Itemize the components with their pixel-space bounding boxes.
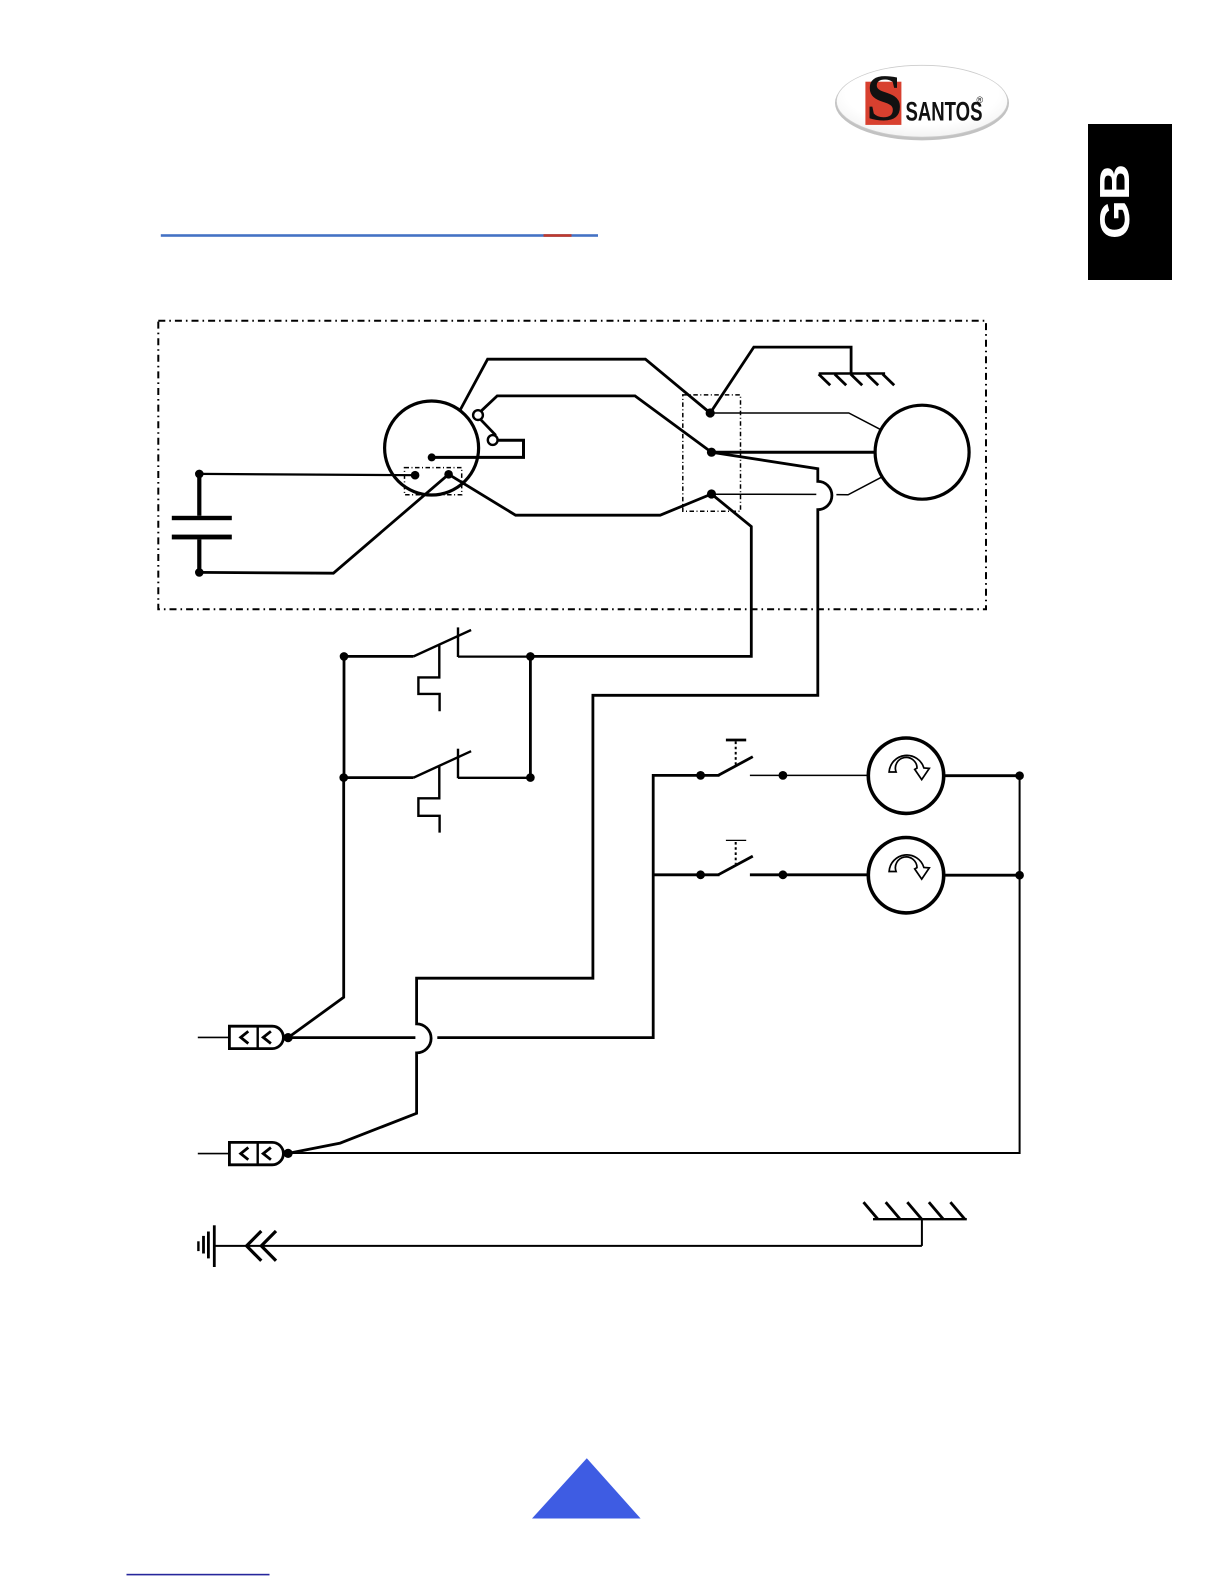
wire cap-bottom to motor terminal [199,474,448,573]
chassis ground symbol (in box) [819,374,895,386]
left bus S2 down to plug P1 [288,778,344,1038]
earth electrode symbol (left) [198,1225,214,1267]
node cap bottom [195,568,204,577]
svg-text:GB: GB [1091,164,1138,239]
capacitor C1 bottom plate [172,535,232,540]
node PB2 left [696,870,705,879]
motor M3 right wire [944,774,1020,777]
right bus between S1 and S2 [529,656,532,777]
title underline red segment [544,234,572,237]
motor M1 body circle [385,401,479,495]
left bus between S1 and S2 [343,656,346,777]
wire motor top to node A (outer run) [460,359,710,413]
wire node B down (with hop) to lower circuit / plug 2 [288,452,832,1153]
node bus M4 [1015,871,1024,880]
wire plug P1 to pushbutton bus (with hop) [288,775,700,1037]
plug P2 left lead [198,1153,230,1155]
wire node B to motor M2 [712,451,876,454]
node C [707,489,716,498]
node S2 right [526,773,535,782]
motor M4 circle [868,838,943,913]
chassis ground symbol (bottom) [864,1202,967,1219]
switch S2 actuator linkage [418,766,439,833]
node plug P2 [284,1149,293,1158]
centrifugal switch lever [481,420,496,436]
blue nav triangle [532,1458,641,1518]
switch S1 actuator linkage [418,645,439,712]
wire contact-a to node B (upper inner run) [482,396,712,452]
node dots [195,408,1024,1158]
motor M4 right wire [944,874,1020,877]
svg-text:®: ® [977,95,984,105]
right bus down to plug P2 wire [288,776,1020,1153]
node plug P1 [284,1033,293,1042]
pushbutton PB2 right wire [750,873,868,876]
footer navy rule [127,1574,270,1576]
wire node C to motor terminal (lower inner run) [449,474,712,515]
pushbutton PB1 right wire (thin) [750,774,868,776]
plug P2 body [229,1142,283,1164]
switch S2 blade [414,751,472,777]
motor M4 rotation arrow [889,855,929,879]
node PB1 left [696,771,705,780]
capacitor C1 top lead [197,474,201,516]
wire node A to motor M2 (thin) [710,413,881,430]
GB language tab (black) [1088,124,1172,280]
svg-text:SANTOS: SANTOS [906,97,983,127]
plug P1 left lead [198,1036,230,1038]
dash-dot enclosure box (motor unit) [158,321,986,609]
switch S2 fixed contact [457,749,459,779]
centrifugal switch contact a [473,410,483,420]
wire node A to chassis ground [710,347,851,413]
node A [706,408,715,417]
wire cap-top to motor terminal [199,474,415,475]
dashed terminal box A (motor leads) [405,468,462,495]
switch S1 fixed contact [457,627,459,657]
node B [707,448,716,457]
Santos logo oval [835,65,1009,140]
switch S1 right wire [458,655,530,657]
pushbutton PB1 plunger cap [726,739,746,742]
wire motor center to centrifugal switch [432,440,524,457]
motor M3 rotation arrow [889,755,929,779]
motor M3 circle [868,738,943,813]
pushbutton PB2 blade [701,856,753,875]
dashed connector box B [683,395,741,511]
PE riser to chassis ground [921,1219,923,1246]
plug P1 body [229,1026,283,1048]
pushbutton PB1 blade [701,757,753,776]
Santos logo red square [865,82,901,125]
node S1 left [340,652,349,661]
capacitor C1 top plate [172,516,232,520]
motor M2 body circle (right) [875,405,969,499]
PE chevron 2 [261,1231,276,1261]
node bus M3 [1015,771,1024,780]
wire node C to motor M2 (thin, passes under hop) [712,477,882,495]
protective earth wire [214,1245,922,1247]
pushbutton PB1 plunger (dashed) [735,742,737,765]
node motor terminal left [411,471,420,480]
pushbutton PB2 plunger cap [726,839,746,841]
wire node C down to switch S1 [530,494,751,656]
pushbutton PB2 plunger (dashed) [735,842,737,864]
svg-text:S: S [866,62,903,135]
title underline (blue) [161,234,598,237]
switch S2 right wire [458,777,530,779]
node PB1 right [779,771,788,780]
PE chevron 1 [247,1231,262,1261]
switch S1 blade [414,630,472,656]
switch S2 left wire [344,776,414,779]
node PB2 right [779,870,788,879]
centrifugal switch contact b [488,435,498,445]
switch S1 left wire [344,655,414,658]
capacitor C1 bottom lead [197,539,201,572]
node motor center [428,453,436,461]
node S2 left [339,773,348,782]
node S1 right [526,652,535,661]
node cap top [195,470,204,479]
node motor terminal right [444,470,453,479]
